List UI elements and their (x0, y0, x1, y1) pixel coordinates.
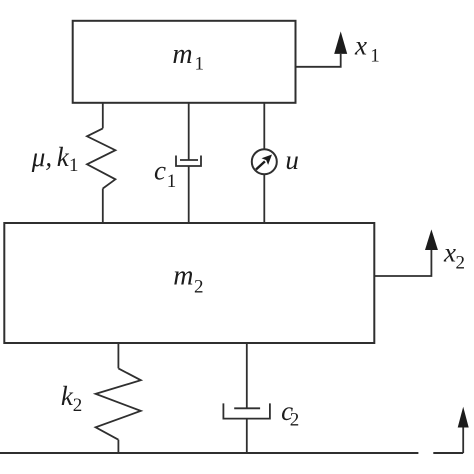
svg-text:m: m (172, 39, 192, 70)
actuator u rod upper (263, 103, 265, 149)
svg-text:1: 1 (370, 46, 380, 67)
damper c2 rod upper (246, 343, 248, 408)
x1 takeoff wire (296, 54, 341, 67)
svg-text:1: 1 (195, 54, 205, 75)
svg-text:u: u (285, 145, 299, 175)
damper c1 rod upper (188, 103, 190, 160)
svg-text:2: 2 (456, 253, 466, 274)
damper c1 rod lower (188, 166, 190, 223)
mass m1 box (73, 21, 296, 103)
svg-text:1: 1 (167, 171, 177, 192)
svg-text:μ,: μ, (31, 142, 52, 172)
mass m2 box (4, 223, 374, 343)
svg-text:1: 1 (69, 155, 79, 176)
ground arrow stem (462, 428, 464, 454)
svg-text:x: x (443, 238, 456, 268)
ground line left segment (0, 452, 418, 454)
svg-text:2: 2 (73, 395, 83, 416)
actuator u rod lower (263, 174, 265, 223)
ground arrowhead (458, 407, 469, 428)
x2 takeoff wire (374, 250, 431, 276)
svg-text:m: m (173, 261, 193, 292)
x1 arrowhead (334, 31, 347, 54)
damper c2 rod lower (246, 419, 248, 453)
svg-text:2: 2 (194, 277, 204, 298)
svg-text:2: 2 (290, 410, 300, 431)
spring k2 zigzag (96, 368, 141, 439)
wire spring k1 to m2 (102, 189, 104, 224)
wire spring k2 to ground (117, 440, 119, 453)
wire m2 to spring k2 (117, 343, 119, 368)
damper c2 cup (223, 403, 270, 418)
damper c1 piston plate (180, 159, 198, 161)
damper c2 piston plate (234, 407, 260, 409)
svg-text:x: x (354, 31, 367, 61)
wire m1 to spring k1 (102, 103, 104, 129)
actuator u circle (252, 149, 277, 174)
x2 arrowhead (425, 229, 438, 250)
actuator u arrow (256, 161, 265, 169)
svg-text:c: c (154, 156, 166, 186)
ground line right segment (433, 452, 463, 454)
spring k1 zigzag (87, 128, 115, 188)
damper c1 cup (176, 156, 201, 167)
svg-text:k: k (57, 142, 70, 172)
